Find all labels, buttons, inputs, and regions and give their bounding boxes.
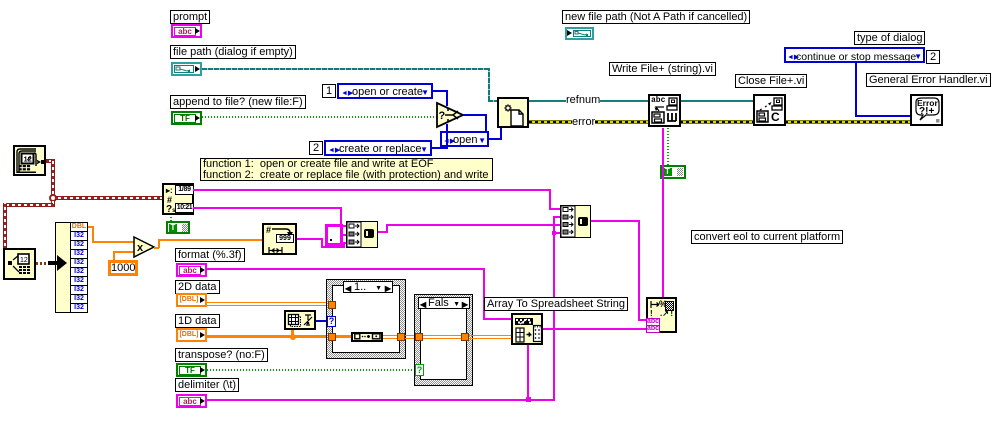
wire: concat2 output (magenta) (591, 220, 640, 222)
wire: milliseconds (orange) multiply out (154, 247, 159, 249)
tunnel: 2D data into case1 (328, 301, 336, 309)
build array node inside case1 (351, 332, 383, 343)
wire: spreadsheet string out (magenta) (543, 328, 646, 330)
tunnel: case1 output (397, 333, 405, 341)
constant: 1 (label box) (322, 84, 336, 98)
svg-text:x: x (137, 242, 144, 254)
wire: format string (magenta) (207, 268, 485, 270)
unbundle cells: I32 x9 (70, 231, 88, 241)
wire: delimiter (magenta) horizontal (207, 399, 555, 401)
junction: delimiter to Array To Spreadsheet String (526, 397, 531, 402)
string control: delimiter (abc) (176, 394, 207, 408)
wire: file path (teal) into Open icon (488, 100, 498, 102)
wire: append boolean (green dotted) to Select (202, 116, 438, 118)
number to fractional string node (262, 223, 297, 255)
concat2 rows (561, 206, 575, 237)
wire: timestamp to date/time node (dark red dashed) (55, 196, 162, 200)
unbundle cell: DBL (70, 222, 88, 232)
label: type of dialog (854, 31, 925, 45)
label: refnum (566, 94, 600, 106)
wire: ring3 to Open icon (blue) (489, 138, 502, 140)
label: append to file? (new file:F) (170, 95, 306, 109)
cell: date string 1/89 (175, 185, 194, 195)
svg-text:C: C (771, 110, 780, 124)
cell: format input abc 1 (646, 318, 660, 326)
wire: seconds DBL (orange) (88, 226, 94, 228)
wire: space constant to concat1 row2 (343, 234, 346, 236)
wire: want seconds (green dotted) vertical (170, 215, 172, 221)
string control: format (abc) (176, 263, 207, 277)
label: convert eol to current platform (691, 230, 843, 244)
function: Format Into String (646, 297, 677, 333)
function: Empty Array? (284, 310, 316, 330)
label: 2D data (175, 280, 220, 294)
function: Array To Spreadsheet String (511, 313, 543, 345)
label: file path (dialog if empty) (170, 45, 296, 59)
wire: 1000 (orange) (113, 251, 115, 260)
wire: timestamp (dark red dashed) from icon1 (46, 159, 55, 163)
multiply function (133, 236, 156, 258)
boolean constant: T (want seconds) (166, 221, 190, 234)
cell: format input abc 2 (646, 325, 660, 333)
array control: 2D data [DBL] (176, 293, 207, 307)
wire: transpose (green dotted) (207, 369, 416, 371)
cell: 999 precision (276, 234, 294, 243)
case 1 selector label (343, 281, 393, 293)
wire: concat1 output (magenta) (378, 231, 388, 233)
cell: time string 10:21 (175, 203, 194, 213)
wire: between case structures (orange double) (405, 335, 417, 336)
select function (436, 102, 466, 128)
case 2 selector label (418, 297, 470, 309)
junction: 1D data to Empty Array (290, 334, 296, 340)
wire: is empty (blue) (316, 320, 329, 322)
wire: date string vertical into concat2 row1 (549, 189, 551, 209)
wire: type of dialog (blue) horizontal (855, 115, 910, 117)
comment: function description (200, 158, 493, 181)
wire: timestamp branch left (3, 203, 53, 207)
wire: 2D data (orange double) (207, 302, 329, 303)
junction: timestamp wire (49, 194, 57, 202)
label: General Error Handler.vi (866, 73, 991, 87)
tunnel: case selector ? (blue) (327, 316, 336, 327)
tunnel: case2 selector ? (green) (415, 364, 424, 376)
wire: refnum (teal) Write to Close (680, 100, 754, 102)
vi icon: Get Date/Time In Seconds (13, 145, 46, 176)
label: Close File+.vi (735, 74, 807, 88)
ring constant: open or create (337, 83, 433, 99)
tunnel: case2 input (415, 333, 423, 341)
ring constant: continue or stop message (784, 47, 925, 63)
wire: file path (teal) horizontal (202, 68, 489, 70)
wire: date string (magenta) horizontal (193, 189, 551, 191)
wire: final string (magenta) vertical Format to Write File+ (662, 128, 664, 297)
label: new file path (Not A Path if cancelled) (562, 10, 750, 24)
tunnel: case2 output (461, 333, 469, 341)
vi node: Get Date/Time String (162, 183, 194, 215)
wire: 1D inside case1 left (orange) (336, 335, 352, 338)
vi icon: General Error Handler (910, 94, 943, 126)
wire: time string (magenta) horizontal (193, 207, 342, 209)
svg-text:?!+: ?!+ (919, 106, 934, 117)
wire: refnum (teal) Open to Write (529, 100, 649, 102)
vi icon: Close File+ (753, 94, 786, 126)
constant: 1000 (108, 260, 138, 276)
tunnel: 1D data into case1 (328, 333, 336, 341)
wire: error (yellow/black) Write to Close (680, 120, 754, 124)
wire: type of dialog (blue) vertical (855, 63, 857, 117)
wire: ring2 to select (blue) (432, 147, 448, 149)
label: error (572, 116, 595, 128)
wire: error (yellow/black) Close to Error Handler (785, 120, 911, 124)
ring constant: create or replace (324, 140, 432, 156)
wire: date/time cluster (brown dotted) (36, 262, 55, 265)
wire: 1D data (orange) (207, 335, 329, 338)
wire: convert eol T (green dotted) vertical (667, 128, 669, 165)
wire: case2 out to ArrToSS (orange double) (469, 335, 511, 336)
array control: 1D data [DBL] (176, 328, 207, 342)
constant: 2 (label box) (309, 141, 323, 155)
wire: time string vertical into concat1 row1 (340, 207, 342, 227)
label: delimiter (\t) (175, 378, 239, 392)
svg-text:12: 12 (20, 257, 28, 264)
concatenate strings node 1 (346, 221, 378, 248)
wire: timestamp branch down to icon2 (3, 203, 7, 249)
vi icon: Write File+ (string) (648, 94, 681, 127)
wire: error (yellow/black) Open to Write (529, 120, 649, 124)
ring indicator: open (440, 131, 489, 147)
label: 1D data (175, 314, 220, 328)
svg-text:?: ? (439, 110, 446, 122)
wire: inside case2 (orange double) (423, 335, 463, 336)
concat1 rows (347, 222, 361, 247)
label: Write File+ (string).vi (609, 62, 716, 76)
label: transpose? (no:F) (175, 348, 268, 362)
constant: 2 (type of dialog value) (926, 50, 940, 64)
concatenate strings node 2 (560, 205, 591, 238)
vi icon: Seconds To Date/Time (3, 248, 36, 280)
wire: 2D inside case1 right (orange double) (383, 335, 398, 336)
label: prompt (170, 10, 210, 24)
boolean control: append to file? (TF) (171, 111, 202, 125)
string constant: space (325, 224, 343, 246)
wire: timestamp branch down (51, 200, 55, 207)
vi icon: Open/Create/Replace File (497, 97, 529, 128)
case structure 1 (selector 1..) border (326, 279, 406, 359)
path indicator: new file path (565, 27, 594, 40)
label: format (%.3f) (175, 248, 245, 262)
boolean control: transpose (TF) (176, 363, 207, 377)
unbundle node: date/time record (55, 222, 88, 313)
wire: file path (teal) vertical (488, 68, 490, 101)
junction: delimiter to concat2 row4 (552, 231, 556, 235)
wire: ms string (magenta) from 999 node (297, 238, 323, 240)
boolean constant: T (convert eol) (660, 165, 686, 179)
string control: prompt (abc) (171, 24, 202, 38)
coercion arrow into unbundle (48, 255, 67, 271)
wire: select output to ring3 (blue) (463, 114, 487, 116)
path control: file path (171, 62, 202, 76)
wire: timestamp vertical down to junction (51, 159, 55, 203)
label: Array To Spreadsheet String (484, 297, 628, 311)
wire: ring1 to select (blue) (433, 90, 448, 92)
case structure 2 (selector Fals) border (414, 294, 473, 386)
wire: delimiter vertical trunk (magenta) (553, 216, 555, 400)
